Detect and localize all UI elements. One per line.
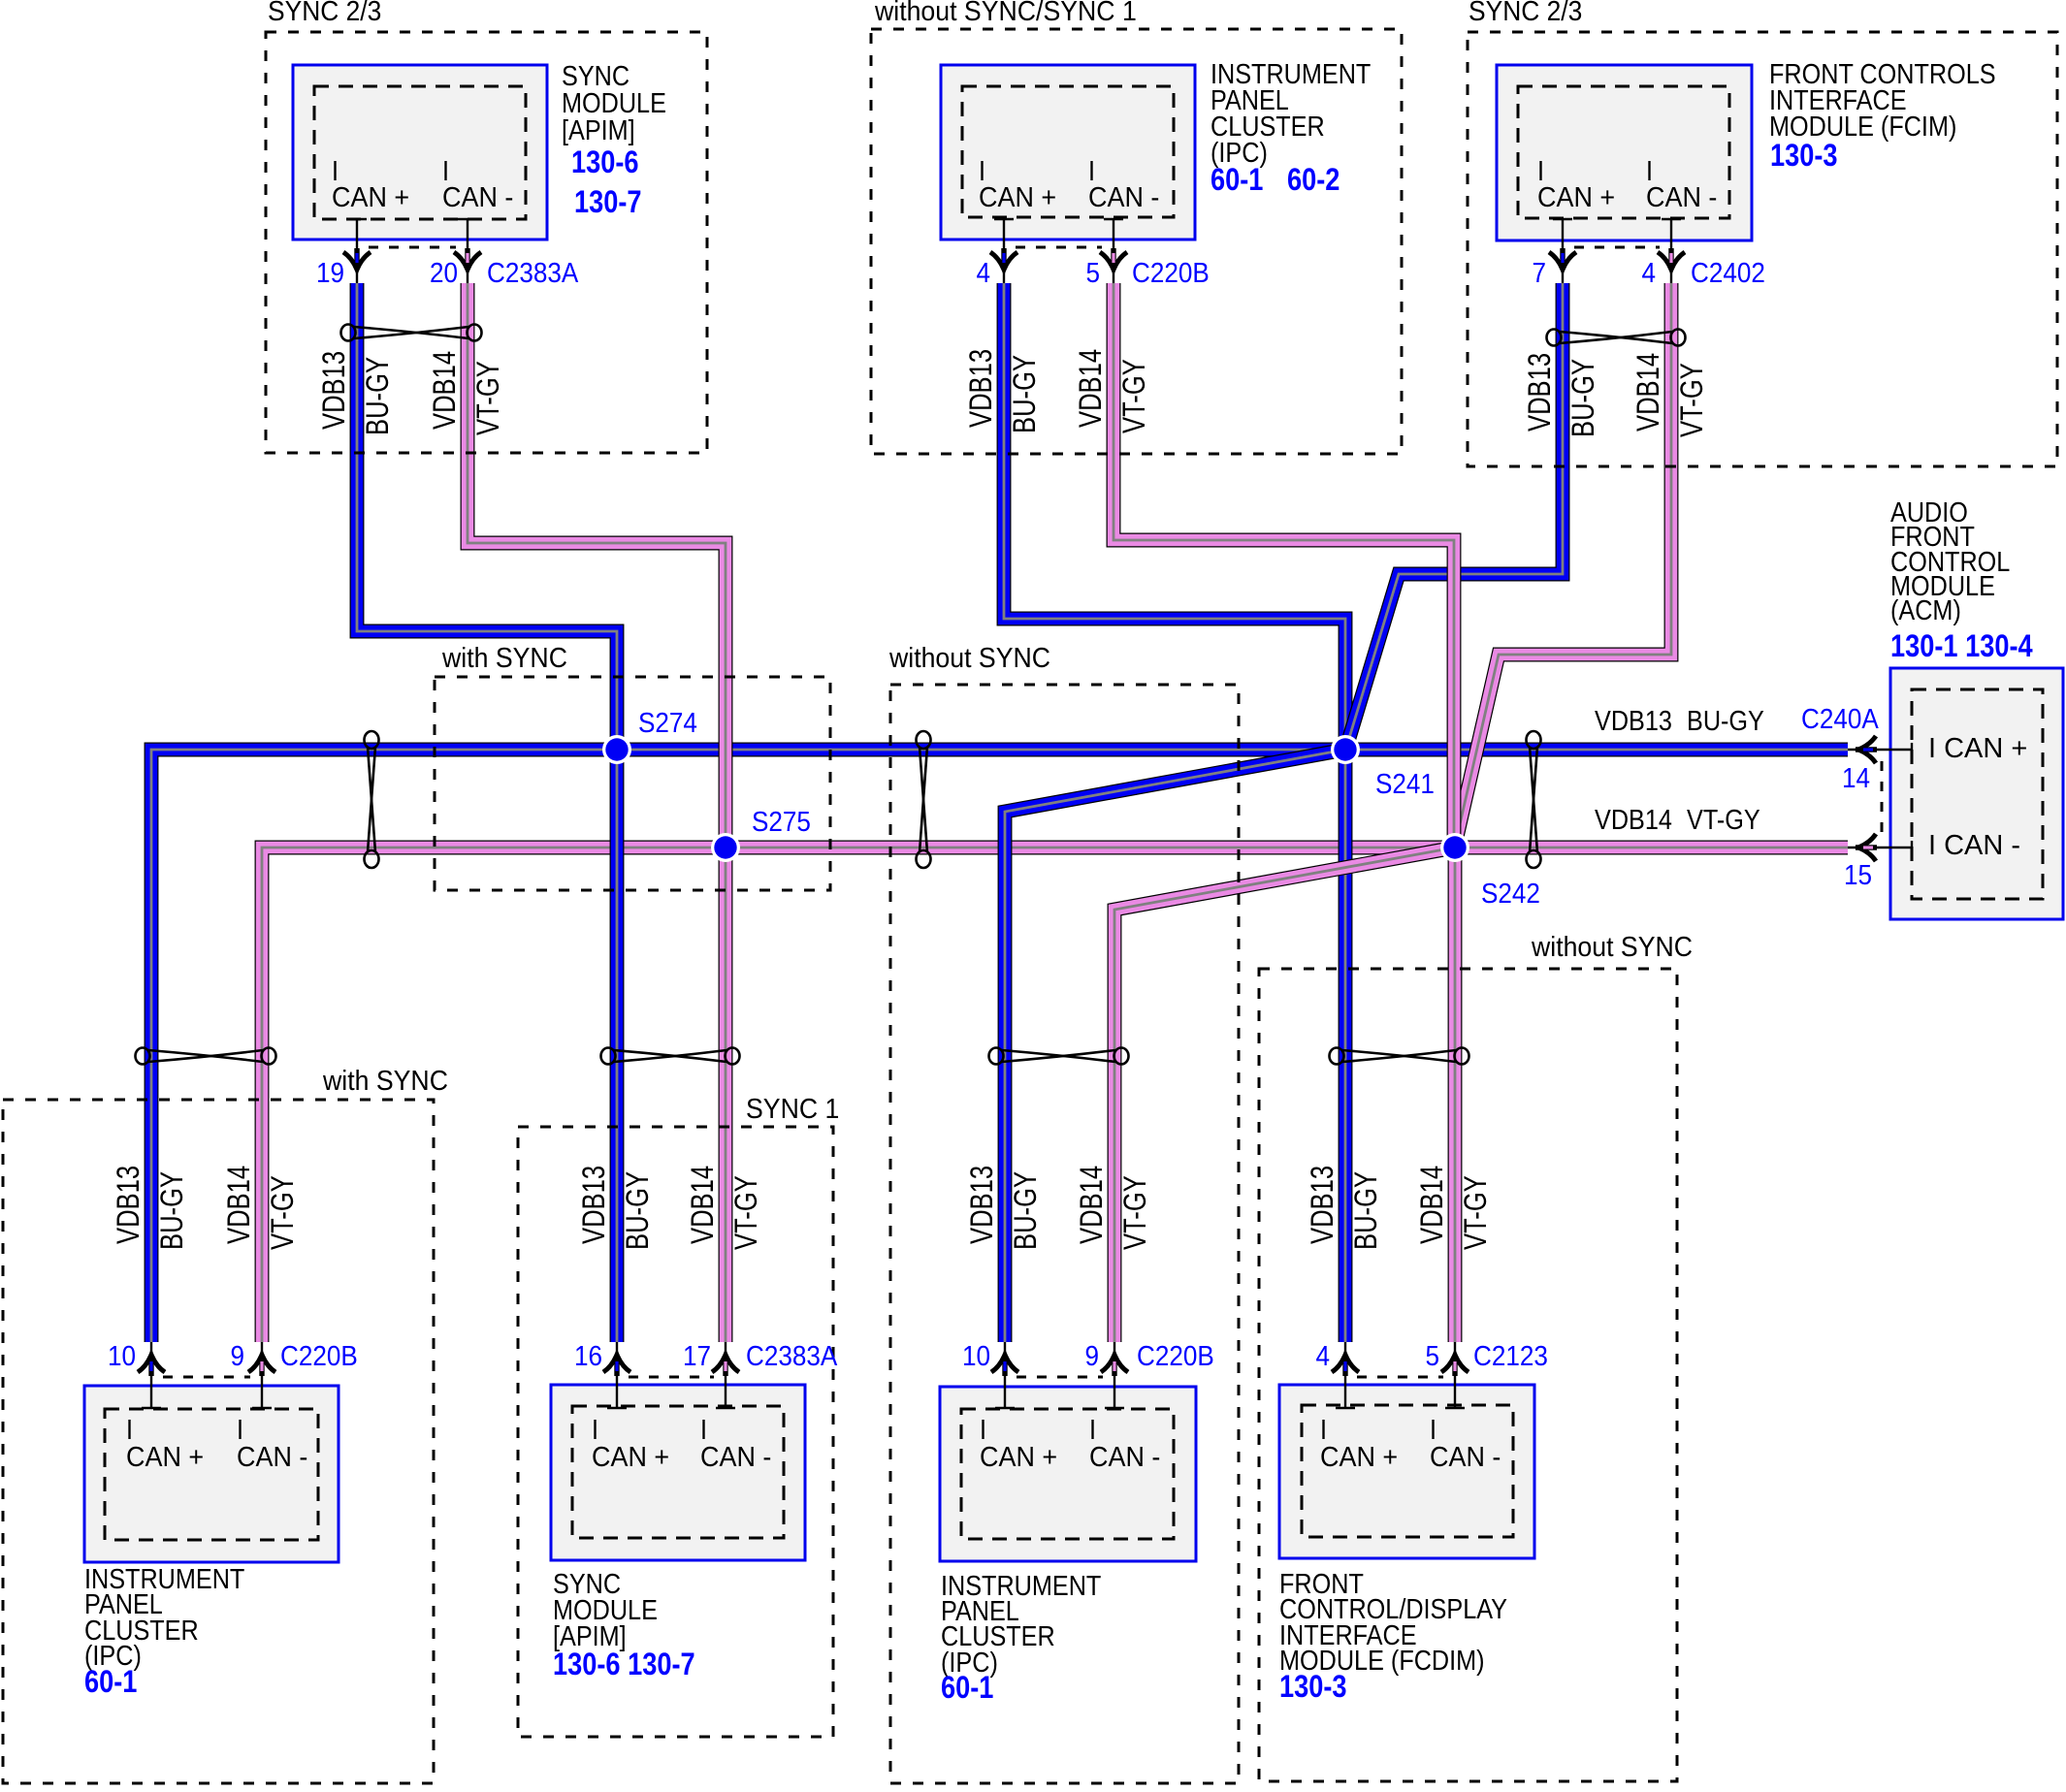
connector arrow (C220B pin 4) xyxy=(990,248,1017,270)
svg-text:CAN -: CAN - xyxy=(1646,181,1717,212)
splice S274 xyxy=(602,735,631,764)
svg-text:VT-GY: VT-GY xyxy=(1117,359,1151,433)
svg-text:C2383A: C2383A xyxy=(746,1340,838,1372)
connector arrow (C2383A pin 19) xyxy=(343,248,371,270)
splice S275 xyxy=(711,833,740,862)
svg-text:VDB14: VDB14 xyxy=(1075,1166,1109,1244)
svg-text:(ACM): (ACM) xyxy=(1890,593,1961,625)
svg-text:VDB14: VDB14 xyxy=(1074,349,1108,428)
connector arrow (C2383A pin 20) xyxy=(454,248,481,270)
svg-text:130-6 130-7: 130-6 130-7 xyxy=(553,1648,695,1682)
connector arrow (C240A pin 14) xyxy=(1856,736,1877,763)
dashed harness-option box: SYNC 2/3 (top left) xyxy=(266,32,707,453)
svg-text:60-2: 60-2 xyxy=(1287,163,1340,198)
svg-text:SYNC 1: SYNC 1 xyxy=(746,1093,839,1124)
svg-text:9: 9 xyxy=(1084,1340,1099,1372)
twisted-pair symbol (IPC bottom-middle pair) xyxy=(989,1048,1129,1065)
connector C220B bracket (bottom left) xyxy=(163,1376,250,1379)
wire VDB13 from APIM pin 19 to splice S274 xyxy=(357,283,617,750)
module INSTRUMENT PANEL CLUSTER IPC (bottom middle) xyxy=(940,1387,1196,1561)
svg-text:I CAN -: I CAN - xyxy=(1928,830,2020,861)
connector C2383A bracket (bottom) xyxy=(629,1376,714,1379)
splice S241 xyxy=(1331,735,1360,764)
svg-text:VDB13: VDB13 xyxy=(1306,1166,1340,1244)
svg-text:130-6: 130-6 xyxy=(571,145,639,180)
splice S242 xyxy=(1440,833,1469,862)
connector dashed outline inside INSTRUMENT PANEL CLUSTER IPC (bottom left) xyxy=(105,1409,318,1540)
connector dashed outline inside INSTRUMENT PANEL CLUSTER IPC (top middle) xyxy=(962,86,1174,217)
svg-text:CAN +: CAN + xyxy=(1320,1441,1398,1472)
connector arrow (C220B pin 10 (bottom middle)) xyxy=(991,1355,1018,1376)
svg-text:S242: S242 xyxy=(1481,878,1540,910)
svg-text:60-1: 60-1 xyxy=(941,1671,993,1706)
connector C2383A bracket xyxy=(369,246,456,249)
svg-text:CAN -: CAN - xyxy=(700,1441,771,1472)
svg-text:VDB13: VDB13 xyxy=(1523,353,1557,432)
svg-text:CAN +: CAN + xyxy=(1537,181,1615,212)
svg-text:17: 17 xyxy=(683,1340,711,1372)
connector arrow (C220B pin 10) xyxy=(138,1355,165,1376)
dashed harness-option box: with SYNC (middle) xyxy=(435,677,830,890)
dashed harness-option box: SYNC 2/3 (top right) xyxy=(1468,32,2057,466)
dashed harness-option box: with SYNC (bottom left) xyxy=(3,1100,434,1783)
svg-text:CAN -: CAN - xyxy=(1088,181,1159,212)
svg-text:C220B: C220B xyxy=(1137,1340,1214,1372)
wire VDB13 from IPC pin 4 to splice S241 xyxy=(1004,283,1345,750)
svg-text:60-1: 60-1 xyxy=(84,1665,137,1700)
connector C220B bracket (bottom middle) xyxy=(1017,1376,1103,1379)
svg-text:BU-GY: BU-GY xyxy=(1008,355,1042,433)
dashed harness-option box: SYNC 1 (bottom) xyxy=(518,1127,833,1737)
svg-text:9: 9 xyxy=(230,1340,244,1372)
connector arrow (C2123 pin 4) xyxy=(1332,1355,1359,1376)
connector arrow (C240A pin 15) xyxy=(1856,834,1877,861)
svg-text:CAN +: CAN + xyxy=(592,1441,669,1472)
svg-text:without SYNC: without SYNC xyxy=(1531,931,1693,962)
svg-text:I CAN +: I CAN + xyxy=(1928,733,2027,764)
dashed harness-option box: without SYNC (bottom middle) xyxy=(890,685,1239,1783)
svg-text:BU-GY: BU-GY xyxy=(1349,1171,1383,1250)
svg-text:BU-GY: BU-GY xyxy=(155,1171,189,1250)
connector C240A bracket xyxy=(1881,761,1884,836)
pin leads APIM bottom pins 16,17 xyxy=(616,1342,618,1408)
svg-text:BU-GY: BU-GY xyxy=(621,1171,655,1250)
svg-text:VDB13: VDB13 xyxy=(964,349,998,428)
svg-text:VT-GY: VT-GY xyxy=(266,1175,300,1250)
twisted-pair symbol (FCIM pair) xyxy=(1547,330,1686,346)
wire VDB14 from S275 down to APIM(SYNC 1) pin 17 xyxy=(719,848,733,1342)
svg-text:VT-GY: VT-GY xyxy=(729,1175,763,1250)
wire VDB14 from APIM pin 20 to splice S275 xyxy=(468,283,726,848)
connector dashed outline inside SYNC MODULE [APIM] (top left) xyxy=(314,86,526,219)
wire VDB14 from FCIM pin 4 to splice S242 xyxy=(1455,283,1671,846)
twisted-pair symbol (APIM SYNC1 pair) xyxy=(601,1048,740,1065)
connector dashed outline inside AUDIO FRONT CONTROL MODULE ACM (right) xyxy=(1912,689,2043,899)
module AUDIO FRONT CONTROL MODULE ACM (right) xyxy=(1890,668,2063,919)
svg-text:16: 16 xyxy=(574,1340,602,1372)
svg-text:with SYNC: with SYNC xyxy=(441,642,567,673)
wire VDB14 from S242 down to FCDIM pin 5 xyxy=(1448,848,1463,1342)
svg-text:130-3: 130-3 xyxy=(1770,139,1838,174)
svg-text:130-7: 130-7 xyxy=(574,185,642,220)
svg-text:S241: S241 xyxy=(1375,768,1435,800)
svg-text:5: 5 xyxy=(1085,257,1100,289)
svg-text:SYNC 2/3: SYNC 2/3 xyxy=(268,0,381,26)
svg-text:VDB14: VDB14 xyxy=(1595,803,1672,835)
twisted-pair symbol (bus pair middle) xyxy=(917,731,931,868)
svg-text:VDB13: VDB13 xyxy=(317,351,351,430)
svg-text:BU-GY: BU-GY xyxy=(1009,1171,1043,1250)
svg-text:VDB13: VDB13 xyxy=(1595,704,1672,736)
module INSTRUMENT PANEL CLUSTER IPC (bottom left) xyxy=(84,1386,339,1562)
svg-text:19: 19 xyxy=(316,257,344,289)
svg-text:S275: S275 xyxy=(752,806,811,838)
svg-text:CAN -: CAN - xyxy=(442,181,513,212)
svg-text:VT-GY: VT-GY xyxy=(471,361,505,435)
pin leads IPC bottom-left pins 10,9 xyxy=(150,1342,152,1408)
svg-text:130-1 130-4: 130-1 130-4 xyxy=(1890,629,2033,664)
connector C2402 bracket xyxy=(1574,246,1660,249)
twisted-pair symbol (APIM top-left pair) xyxy=(341,325,482,341)
wire VDB13 BU-GY main bus + drop to IPC(with SYNC) pin 10 xyxy=(151,750,1848,1342)
module SYNC MODULE [APIM] (top left) xyxy=(293,65,547,240)
svg-text:VDB14: VDB14 xyxy=(1631,353,1665,432)
pin leads IPC bottom-middle pins 10,9 xyxy=(1004,1342,1006,1408)
pin leads FCDIM pins 4,5 xyxy=(1344,1342,1346,1408)
svg-text:CAN +: CAN + xyxy=(979,181,1056,212)
connector arrow (C2123 pin 5) xyxy=(1441,1355,1469,1376)
connector arrow (C220B pin 5) xyxy=(1100,248,1127,270)
connector arrow (C220B pin 9) xyxy=(248,1355,275,1376)
svg-text:4: 4 xyxy=(1315,1340,1330,1372)
connector dashed outline inside INSTRUMENT PANEL CLUSTER IPC (bottom middle) xyxy=(961,1409,1174,1539)
svg-text:C2123: C2123 xyxy=(1473,1340,1548,1372)
twisted-pair symbol (bus pair right) xyxy=(1527,731,1541,868)
svg-text:C220B: C220B xyxy=(280,1340,358,1372)
dashed harness-option box: without SYNC (bottom right) xyxy=(1259,969,1677,1781)
svg-text:VDB13: VDB13 xyxy=(965,1166,999,1244)
svg-text:CAN +: CAN + xyxy=(126,1441,204,1472)
twisted-pair symbol (IPC bottom-left pair) xyxy=(136,1048,276,1065)
svg-text:C2383A: C2383A xyxy=(487,257,579,289)
svg-text:CAN +: CAN + xyxy=(980,1441,1057,1472)
wire VDB14 from IPC pin 5 to splice S242 xyxy=(1114,283,1454,848)
connector C220B bracket (top) xyxy=(1016,246,1102,249)
svg-text:[APIM]: [APIM] xyxy=(562,113,635,145)
svg-text:CAN -: CAN - xyxy=(1430,1441,1501,1472)
svg-text:VT-GY: VT-GY xyxy=(1459,1175,1493,1250)
wire VDB13 from S241 down to FCDIM pin 4 xyxy=(1339,750,1353,1342)
module SYNC MODULE [APIM] (bottom, SYNC 1) xyxy=(551,1385,805,1560)
connector dashed outline inside SYNC MODULE [APIM] (bottom, SYNC 1) xyxy=(572,1406,784,1538)
svg-text:VT-GY: VT-GY xyxy=(1687,803,1760,835)
wire VDB14 from S242 to IPC(without SYNC) pin 9 xyxy=(1114,848,1455,1342)
connector arrow (C2383A pin 17) xyxy=(712,1355,739,1376)
svg-text:CAN -: CAN - xyxy=(1089,1441,1160,1472)
svg-text:SYNC 2/3: SYNC 2/3 xyxy=(1469,0,1582,26)
svg-text:S274: S274 xyxy=(638,707,697,739)
connector C2123 bracket xyxy=(1357,1376,1443,1379)
wire VDB13 from S274 down to APIM(SYNC 1) pin 16 xyxy=(610,750,625,1342)
svg-text:130-3: 130-3 xyxy=(1279,1670,1347,1705)
pin leads APIM top-left pins 19,20 xyxy=(356,219,358,283)
twisted-pair symbol (bus pair left) xyxy=(365,731,379,868)
svg-text:14: 14 xyxy=(1842,762,1870,794)
svg-text:60-1: 60-1 xyxy=(1211,163,1263,198)
connector arrow (C220B pin 9 (bottom middle)) xyxy=(1101,1355,1128,1376)
svg-text:without SYNC/SYNC 1: without SYNC/SYNC 1 xyxy=(874,0,1137,26)
connector dashed outline inside FRONT CONTROLS INTERFACE MODULE FCIM (top right) xyxy=(1518,86,1729,218)
svg-text:VDB13: VDB13 xyxy=(112,1166,145,1244)
svg-text:with SYNC: with SYNC xyxy=(322,1065,448,1096)
svg-text:C2402: C2402 xyxy=(1691,257,1765,289)
module FRONT CONTROL/DISPLAY INTERFACE MODULE FCDIM (bottom right) xyxy=(1279,1385,1534,1558)
svg-text:BU-GY: BU-GY xyxy=(361,357,395,435)
svg-text:VT-GY: VT-GY xyxy=(1675,363,1709,437)
svg-text:10: 10 xyxy=(962,1340,990,1372)
dashed harness-option box: without SYNC/SYNC 1 (top middle) xyxy=(871,29,1402,454)
twisted-pair symbol (FCDIM pair) xyxy=(1330,1048,1469,1065)
module FRONT CONTROLS INTERFACE MODULE FCIM (top right) xyxy=(1497,65,1752,240)
pin leads IPC top-middle pins 4,5 xyxy=(1003,219,1005,283)
svg-text:VDB14: VDB14 xyxy=(222,1166,256,1244)
pin leads FCIM pins 7,4 xyxy=(1562,219,1564,283)
svg-text:MODULE (FCIM): MODULE (FCIM) xyxy=(1769,110,1956,142)
wire VDB13 from FCIM pin 7 to splice S241 xyxy=(1346,283,1563,748)
wire VDB14 VT-GY main bus + drop to IPC(with SYNC) pin 9 xyxy=(262,848,1848,1342)
svg-text:10: 10 xyxy=(108,1340,136,1372)
connector arrow (C2402 pin 4) xyxy=(1658,248,1685,270)
connector arrow (C2383A pin 16) xyxy=(603,1355,630,1376)
pin leads ACM pins 14,15 xyxy=(1848,749,1912,751)
svg-text:5: 5 xyxy=(1425,1340,1439,1372)
module INSTRUMENT PANEL CLUSTER IPC (top middle) xyxy=(941,65,1195,240)
svg-text:4: 4 xyxy=(976,257,990,289)
svg-text:CAN -: CAN - xyxy=(237,1441,307,1472)
svg-text:without SYNC: without SYNC xyxy=(888,642,1050,673)
svg-text:VDB14: VDB14 xyxy=(1415,1166,1449,1244)
svg-text:C240A: C240A xyxy=(1801,703,1879,735)
svg-text:VDB13: VDB13 xyxy=(577,1166,611,1244)
svg-text:4: 4 xyxy=(1641,257,1656,289)
svg-text:CAN +: CAN + xyxy=(332,181,409,212)
svg-text:20: 20 xyxy=(430,257,458,289)
wire VDB13 from S241 to IPC(without SYNC) pin 10 xyxy=(1005,750,1345,1342)
svg-text:15: 15 xyxy=(1844,859,1872,891)
svg-text:BU-GY: BU-GY xyxy=(1687,704,1764,736)
svg-text:VDB14: VDB14 xyxy=(428,351,462,430)
svg-text:7: 7 xyxy=(1532,257,1546,289)
svg-text:VDB14: VDB14 xyxy=(686,1166,720,1244)
connector arrow (C2402 pin 7) xyxy=(1549,248,1576,270)
svg-text:C220B: C220B xyxy=(1132,257,1210,289)
svg-text:VT-GY: VT-GY xyxy=(1118,1175,1152,1250)
connector dashed outline inside FRONT CONTROL/DISPLAY INTERFACE MODULE FCDIM (bottom right) xyxy=(1302,1405,1513,1537)
svg-text:BU-GY: BU-GY xyxy=(1566,359,1600,437)
